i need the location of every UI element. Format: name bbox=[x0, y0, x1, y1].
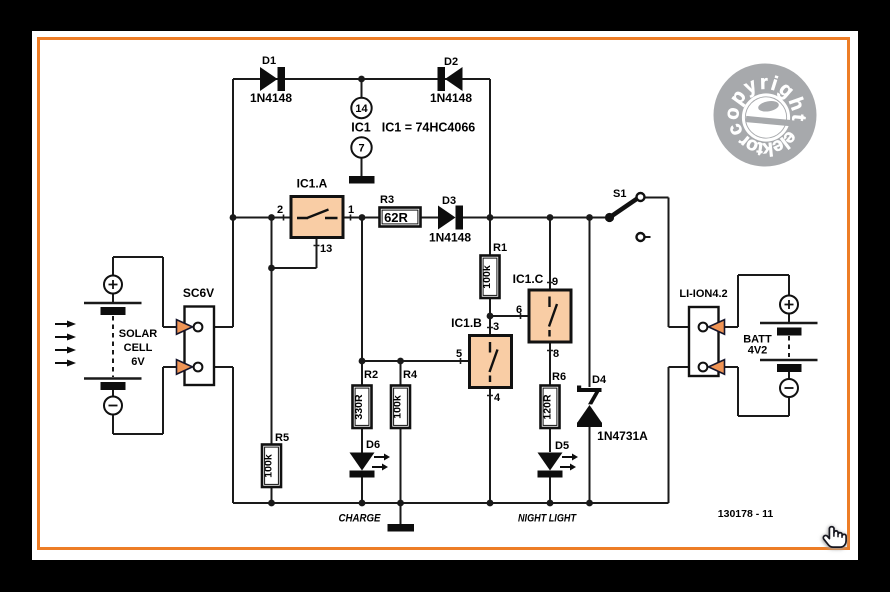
svg-text:13: 13 bbox=[320, 243, 332, 255]
svg-text:4: 4 bbox=[494, 392, 501, 404]
svg-text:IC1 = 74HC4066: IC1 = 74HC4066 bbox=[382, 121, 476, 135]
svg-text:100k: 100k bbox=[263, 454, 275, 478]
svg-text:IC1.B: IC1.B bbox=[451, 316, 482, 330]
svg-text:D3: D3 bbox=[442, 195, 456, 207]
svg-text:CELL: CELL bbox=[124, 342, 153, 354]
svg-text:5: 5 bbox=[456, 348, 462, 360]
svg-text:D1: D1 bbox=[262, 55, 276, 67]
svg-text:130178 - 11: 130178 - 11 bbox=[718, 508, 774, 520]
svg-text:IC1.A: IC1.A bbox=[297, 177, 328, 191]
svg-text:IC1: IC1 bbox=[351, 121, 371, 135]
svg-text:330R: 330R bbox=[353, 394, 365, 420]
svg-text:R4: R4 bbox=[403, 369, 418, 381]
svg-text:1N4148: 1N4148 bbox=[430, 91, 472, 105]
svg-text:R2: R2 bbox=[364, 369, 378, 381]
svg-text:7: 7 bbox=[358, 143, 364, 155]
svg-text:D2: D2 bbox=[444, 56, 458, 68]
svg-text:1N4148: 1N4148 bbox=[250, 91, 292, 105]
svg-text:1N4731A: 1N4731A bbox=[597, 429, 648, 443]
svg-text:14: 14 bbox=[355, 103, 368, 115]
svg-text:R6: R6 bbox=[552, 371, 566, 383]
svg-text:R1: R1 bbox=[493, 242, 507, 254]
svg-text:D5: D5 bbox=[555, 440, 569, 452]
svg-text:6V: 6V bbox=[131, 356, 145, 368]
svg-text:D6: D6 bbox=[366, 439, 380, 451]
svg-text:1: 1 bbox=[348, 204, 354, 216]
svg-text:D4: D4 bbox=[592, 374, 607, 386]
svg-text:R3: R3 bbox=[380, 194, 394, 206]
svg-text:9: 9 bbox=[552, 276, 558, 288]
svg-text:100k: 100k bbox=[481, 265, 493, 289]
svg-text:120R: 120R bbox=[542, 394, 554, 420]
svg-text:SC6V: SC6V bbox=[183, 286, 214, 300]
svg-text:100k: 100k bbox=[392, 395, 404, 419]
svg-text:62R: 62R bbox=[384, 210, 408, 225]
svg-text:S1: S1 bbox=[613, 188, 626, 200]
svg-text:NIGHT LIGHT: NIGHT LIGHT bbox=[518, 513, 577, 525]
svg-text:R5: R5 bbox=[275, 432, 289, 444]
svg-text:3: 3 bbox=[493, 321, 499, 333]
svg-text:CHARGE: CHARGE bbox=[339, 513, 382, 525]
svg-text:2: 2 bbox=[277, 204, 283, 216]
svg-text:IC1.C: IC1.C bbox=[513, 272, 544, 286]
svg-text:8: 8 bbox=[553, 348, 559, 360]
svg-text:LI-ION4.2: LI-ION4.2 bbox=[679, 288, 727, 300]
svg-text:SOLAR: SOLAR bbox=[119, 328, 158, 340]
svg-text:1N4148: 1N4148 bbox=[429, 231, 471, 245]
svg-text:6: 6 bbox=[516, 304, 522, 316]
svg-text:4V2: 4V2 bbox=[748, 345, 768, 357]
